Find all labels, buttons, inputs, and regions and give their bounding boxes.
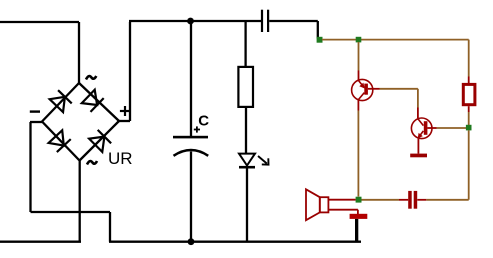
- wire: red resistor top stub: [468, 77, 470, 84]
- diode D4 (lower-right arm, anode at ~ bottom, cathode toward +): [89, 130, 111, 152]
- node: junction dot top of C branch: [187, 18, 194, 25]
- wire: right of coupling cap: [269, 20, 318, 22]
- resistor R2 (red, right rail): [463, 84, 475, 104]
- label ~ (top AC terminal): [86, 76, 96, 80]
- label + (capacitor C polarity): [194, 126, 200, 132]
- wire: below capacitor C: [190, 152, 192, 242]
- wire: resistor/LED branch from top rail: [244, 21, 246, 66]
- capacitor C1 (top coupling cap, black): [261, 10, 269, 32]
- wire: arm L-T: [42, 83, 79, 122]
- wire: left (-) terminal stub: [30, 121, 42, 123]
- wire: olive bottom feedback run: [426, 199, 468, 201]
- wire: between resistor and LED: [245, 108, 247, 154]
- wire: olive right rail down: [468, 130, 470, 199]
- transistor Q2 (NPN): [411, 118, 432, 139]
- wire: red Q2 collector stub: [417, 108, 419, 119]
- label - (negative terminal): [30, 110, 40, 112]
- speaker LS1: [306, 189, 328, 220]
- svg-text:C: C: [198, 112, 209, 129]
- wire: step down at x=110: [109, 212, 111, 242]
- wire: red speaker top lead: [328, 199, 355, 201]
- ground bar (Q2 emitter): [410, 154, 427, 158]
- wire: red Q1 emitter stub: [357, 100, 359, 111]
- label + (positive terminal): [120, 106, 130, 116]
- wire: top-left AC feed horizontal: [0, 21, 79, 23]
- wire: olive down to Q2 collector: [417, 89, 419, 108]
- wire: left vertical down: [29, 122, 31, 212]
- wire: olive C2 to speaker node: [362, 199, 400, 201]
- wire: olive Q1 base to Q2: [380, 88, 418, 90]
- wire: olive down to Q1 collector: [358, 42, 360, 71]
- wire: down to amplifier input: [317, 21, 319, 39]
- capacitor C (polarized filter cap): [173, 136, 208, 156]
- wire: arm T-R: [79, 83, 119, 121]
- wire: olive right rail top: [468, 40, 470, 77]
- wire: red Q2 base stub: [427, 127, 436, 129]
- wire: thick black to bottom rail: [355, 219, 358, 242]
- diode D1 (upper-left arm, anode at -, cathode toward ~ top): [50, 90, 72, 112]
- wire: top DC rail: [129, 20, 261, 22]
- bridge rectifier UR: diamond arms: [42, 83, 119, 161]
- node: green connector GS1 (amp input): [317, 37, 323, 43]
- wire: vertical from + up to top rail: [129, 22, 131, 121]
- wire: red speaker bottom lead: [328, 209, 358, 211]
- resistor R1 (black, series with LED): [238, 67, 253, 107]
- wire: red speaker bottom lead down: [357, 210, 359, 215]
- wire: red resistor bottom stub: [468, 106, 470, 112]
- wire: bridge bottom vertex down: [79, 161, 81, 243]
- ground bar (speaker return): [350, 214, 368, 219]
- wire: arm L-B: [42, 122, 80, 161]
- diode D2 (upper-right arm, anode at ~ top, cathode toward +): [82, 90, 104, 112]
- wire: bottom-left AC rail: [0, 241, 81, 243]
- node: green connector GS4 (speaker node): [356, 197, 362, 203]
- label ~ (bottom AC terminal): [87, 161, 97, 165]
- wire: arm B-R: [80, 121, 120, 161]
- LED D5: [239, 154, 255, 168]
- wire: horizontal at y=212: [31, 211, 111, 213]
- transistor Q1 (PNP): [352, 79, 373, 100]
- wire: red C2 left stub: [399, 199, 408, 201]
- wire: red Q1 collector stub: [358, 71, 360, 80]
- wire: olive to GS3: [468, 112, 470, 125]
- node: green connector GS3: [466, 125, 472, 131]
- wire: olive top supply rail: [322, 39, 469, 41]
- LED arrow: [258, 156, 269, 165]
- wire: red Q1 base stub: [368, 88, 380, 90]
- wire: vertical from top-left feed down to bridge top vertex: [78, 22, 80, 84]
- wire: below LED to bottom rail: [246, 167, 248, 242]
- capacitor C2 (red): [408, 191, 417, 209]
- wire: C branch down: [190, 21, 192, 136]
- wire: red Q2 emitter stub: [417, 139, 419, 154]
- wire: red C2 right stub: [417, 199, 426, 201]
- wire: olive Q1 emitter down to speaker node: [357, 111, 359, 197]
- node: green connector GS2: [356, 37, 362, 43]
- node: junction dot bottom of C branch: [188, 238, 195, 245]
- wire: bottom rail (negative net) to speaker ground: [109, 241, 361, 243]
- diode D3 (lower-left arm, anode at -, cathode toward ~ bottom): [48, 130, 70, 152]
- wire: olive Q2 base to right rail: [437, 127, 467, 129]
- svg-text:UR: UR: [108, 149, 133, 168]
- wire: right (+) terminal stub: [119, 120, 130, 122]
